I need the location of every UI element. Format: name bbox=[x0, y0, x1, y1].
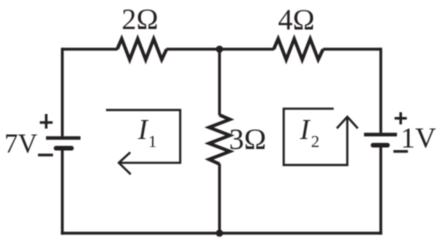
wire bottom bbox=[61, 232, 382, 235]
svg-text:1V: 1V bbox=[401, 123, 437, 155]
wire top-right segment bbox=[323, 48, 381, 51]
svg-text:2Ω: 2Ω bbox=[122, 4, 159, 36]
minus sign of V2 bbox=[393, 150, 408, 153]
resistor R1 2ohm zigzag bbox=[117, 39, 166, 60]
wire top-left segment bbox=[62, 48, 117, 51]
wire right lower bbox=[379, 147, 382, 235]
resistor R3 3ohm zigzag vertical bbox=[209, 115, 230, 164]
svg-text:2: 2 bbox=[311, 132, 320, 151]
svg-text:7V: 7V bbox=[4, 128, 38, 158]
wire middle lower bbox=[218, 164, 221, 233]
wire right upper bbox=[379, 48, 382, 133]
mesh current I2 loop bbox=[284, 109, 358, 165]
plus sign of V1 bbox=[40, 114, 53, 129]
battery V2 long plate bbox=[364, 133, 397, 137]
wire left upper bbox=[61, 48, 64, 137]
battery V1 long plate bbox=[46, 136, 81, 140]
wire left lower bbox=[61, 150, 64, 235]
wire middle upper bbox=[218, 49, 221, 115]
junction node top bbox=[216, 46, 223, 53]
svg-text:1: 1 bbox=[148, 132, 157, 151]
minus sign of V1 bbox=[38, 154, 53, 157]
battery V2 short plate bbox=[373, 143, 388, 148]
mesh current I1 loop bbox=[106, 110, 180, 174]
battery V1 short plate bbox=[56, 146, 72, 151]
svg-text:I: I bbox=[299, 115, 311, 146]
svg-text:I: I bbox=[137, 115, 149, 146]
svg-text:3Ω: 3Ω bbox=[229, 123, 266, 156]
plus sign of V2 bbox=[395, 112, 407, 124]
resistor R2 4ohm zigzag bbox=[274, 39, 323, 60]
wire top-middle segment bbox=[166, 48, 274, 51]
svg-text:4Ω: 4Ω bbox=[278, 4, 315, 36]
junction node bottom bbox=[216, 230, 223, 237]
